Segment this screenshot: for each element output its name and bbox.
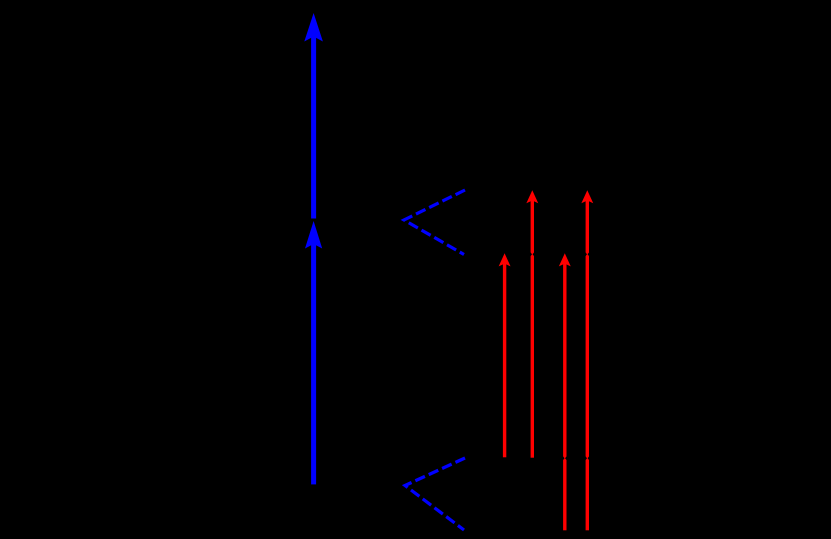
blue upper transition arrow shaft [311,28,316,219]
red arrow A head [499,253,511,266]
level line: upper split sublevel high (black, under) [465,189,612,192]
blue lower transition arrow shaft [311,235,316,484]
level line: ground split sublevel high (black, under) [465,457,612,460]
blue lower transition arrow head [305,221,322,249]
level line: upper split sublevel low (black, under) [465,253,612,256]
blue dashed splitting bracket: ground state to its two sublevels [405,458,465,530]
red arrow C shaft (low ground sublevel to low upper sublevel) [563,259,566,530]
red arrow B head [526,190,538,203]
red arrow A shaft (high ground sublevel to low upper sublevel) [503,259,506,457]
pinch where low upper sublevel crosses red arrow D [585,252,590,257]
blue upper transition arrow head [304,13,323,42]
red arrow C head [559,253,571,266]
level line: ground split sublevel low (black, under) [465,529,612,532]
level line: unsplit ground state (black, under) [255,484,405,487]
pinch where high ground sublevel crosses red arrow C [562,456,567,461]
red arrow B shaft (high ground sublevel to high upper sublevel) [531,196,534,458]
pinch where high ground sublevel crosses red arrow D [585,456,590,461]
red arrow D head [581,190,593,203]
level line: unsplit upper state (black, under) [255,219,404,222]
blue dashed splitting bracket: upper state to its two sublevels [404,190,465,255]
pinch where low upper sublevel crosses red arrow B [530,252,535,257]
red arrow D shaft (low ground sublevel to high upper sublevel) [586,196,589,530]
